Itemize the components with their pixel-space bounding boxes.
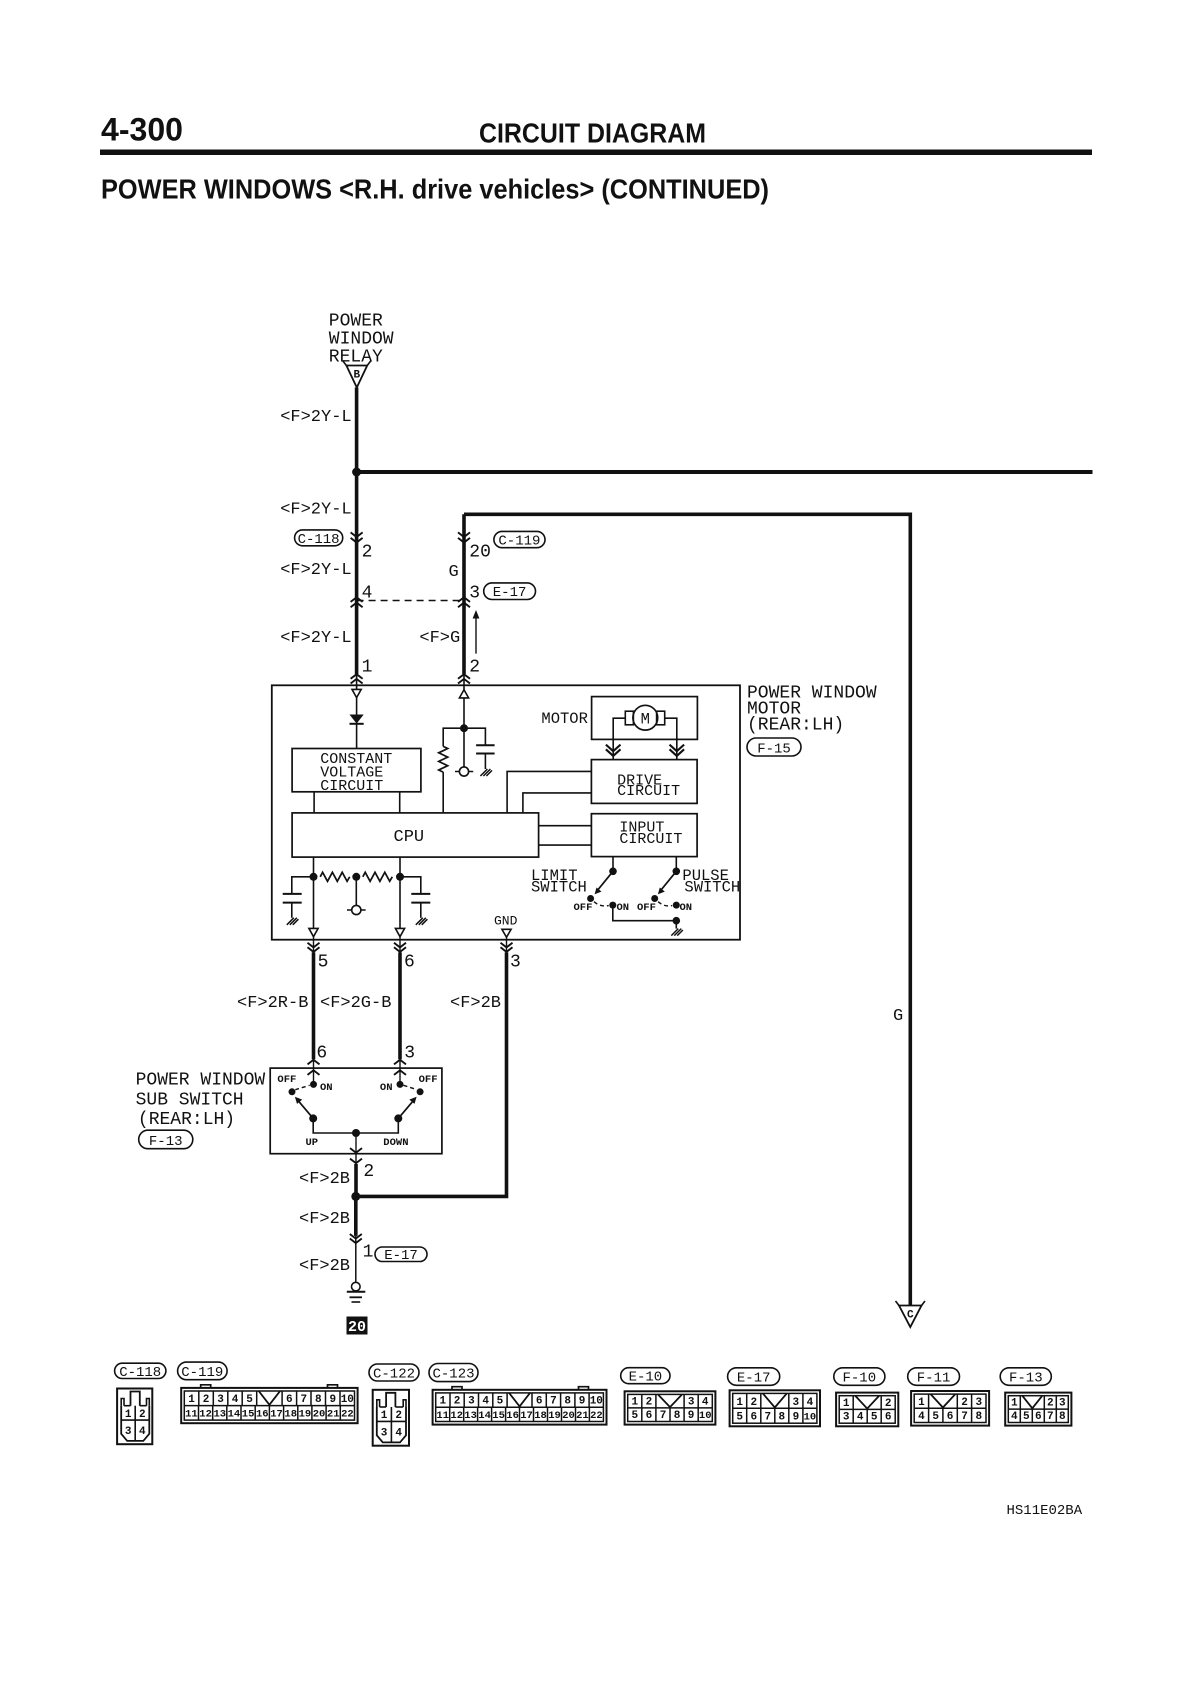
pin 3 exit chevrons xyxy=(501,943,513,952)
wire 2B from sub switch xyxy=(354,1164,358,1196)
svg-text:20: 20 xyxy=(469,543,491,563)
diode D1 xyxy=(350,715,364,724)
svg-text:GND: GND xyxy=(494,914,518,929)
svg-text:5: 5 xyxy=(246,1394,253,1406)
ground hatch C1 xyxy=(480,769,492,776)
pin 5 terminal triangle xyxy=(309,928,318,936)
pin 6 exit thin wire xyxy=(399,937,401,953)
svg-text:POWER: POWER xyxy=(329,311,383,331)
svg-text:18: 18 xyxy=(284,1409,297,1421)
svg-text:<F>2Y-L: <F>2Y-L xyxy=(280,408,351,427)
svg-text:2: 2 xyxy=(203,1394,210,1406)
wire CPU bottom left (pin5) xyxy=(313,857,315,928)
node junction right xyxy=(396,873,404,881)
svg-text:15: 15 xyxy=(492,1410,505,1422)
svg-text:CIRCUIT: CIRCUIT xyxy=(320,778,383,795)
connector C-123 lock tabs xyxy=(452,1387,589,1390)
svg-text:3: 3 xyxy=(510,953,521,973)
pin 5 exit thin wire xyxy=(313,937,315,953)
connector C-123 label box xyxy=(429,1364,478,1383)
wire 2R-B thick xyxy=(312,952,316,1059)
label PULSE SWITCH xyxy=(682,867,740,897)
wire CPU to INPUT upper xyxy=(539,825,592,827)
svg-text:F-15: F-15 xyxy=(757,741,791,757)
svg-text:C-122: C-122 xyxy=(373,1367,415,1383)
svg-text:C-118: C-118 xyxy=(298,532,340,548)
svg-text:2: 2 xyxy=(961,1397,968,1409)
svg-text:2: 2 xyxy=(362,543,373,563)
svg-text:9: 9 xyxy=(579,1396,586,1408)
node bottom junction xyxy=(351,1192,360,1201)
svg-text:CIRCUIT: CIRCUIT xyxy=(619,831,682,848)
svg-text:13: 13 xyxy=(464,1410,477,1422)
svg-text:<F>2B: <F>2B xyxy=(299,1210,350,1229)
svg-text:F-13: F-13 xyxy=(1009,1371,1043,1387)
svg-text:RELAY: RELAY xyxy=(329,347,383,367)
svg-text:18: 18 xyxy=(534,1410,547,1422)
svg-text:3: 3 xyxy=(1059,1398,1066,1410)
svg-text:8: 8 xyxy=(1059,1411,1066,1423)
wire middle down to tap circle xyxy=(355,877,357,906)
node B (power window relay terminal) xyxy=(343,361,371,388)
svg-text:7: 7 xyxy=(300,1394,307,1406)
ECU outer box (power window motor unit) xyxy=(272,685,740,939)
connector E-17 chevrons bottom xyxy=(350,1234,362,1243)
svg-text:7: 7 xyxy=(660,1410,667,1422)
wire B relay down (2Y-L) xyxy=(355,388,359,675)
wire C1 to ground xyxy=(484,754,486,770)
svg-text:WINDOW: WINDOW xyxy=(329,329,394,349)
svg-text:SWITCH: SWITCH xyxy=(531,879,587,897)
wire C3 to ground xyxy=(420,903,422,918)
svg-text:6: 6 xyxy=(750,1412,757,1424)
svg-text:<F>2R-B: <F>2R-B xyxy=(237,994,308,1013)
label LIMIT SWITCH xyxy=(531,867,587,897)
svg-text:2: 2 xyxy=(646,1396,653,1408)
svg-text:2: 2 xyxy=(395,1410,402,1422)
svg-text:3: 3 xyxy=(381,1427,388,1439)
svg-text:(REAR:LH): (REAR:LH) xyxy=(138,1110,235,1130)
wire CPU bottom right (pin6) xyxy=(399,857,401,928)
connector C-122 body xyxy=(373,1390,409,1446)
svg-text:POWER WINDOWS <R.H. drive vehi: POWER WINDOWS <R.H. drive vehicles> (CON… xyxy=(101,174,769,205)
node junction left xyxy=(310,873,318,881)
svg-text:11: 11 xyxy=(185,1409,198,1421)
block CPU xyxy=(292,813,538,857)
svg-text:1: 1 xyxy=(631,1396,638,1408)
svg-text:<F>2B: <F>2B xyxy=(299,1170,350,1189)
wire 2G-B thick xyxy=(398,952,402,1059)
sub switch right contact ON dot xyxy=(397,1081,404,1088)
svg-text:8: 8 xyxy=(975,1411,982,1423)
block CONSTANT VOLTAGE CIRCUIT xyxy=(292,749,421,795)
svg-text:5: 5 xyxy=(318,953,329,973)
svg-text:3: 3 xyxy=(468,1396,475,1408)
connector E-17 chevrons on wire 1 xyxy=(351,597,363,607)
wire limit ON down and right xyxy=(613,905,677,921)
connector F-13 label box xyxy=(1000,1368,1051,1387)
svg-text:13: 13 xyxy=(213,1409,226,1421)
svg-text:G: G xyxy=(449,563,459,582)
connector E-10 body xyxy=(625,1391,716,1424)
svg-text:E-17: E-17 xyxy=(493,585,527,601)
svg-text:ON: ON xyxy=(617,902,630,914)
svg-text:21: 21 xyxy=(576,1410,589,1422)
wire left stub to capacitor C2 xyxy=(292,877,314,894)
node 20 ground reference box xyxy=(347,1317,368,1336)
svg-text:CPU: CPU xyxy=(394,828,425,847)
node junction middle xyxy=(352,873,360,881)
svg-text:6: 6 xyxy=(286,1394,293,1406)
svg-text:F-13: F-13 xyxy=(149,1134,183,1150)
svg-text:19: 19 xyxy=(299,1409,312,1421)
svg-text:2: 2 xyxy=(139,1409,146,1421)
dashed arc right xyxy=(403,1085,416,1089)
wire R1 to CPU xyxy=(442,772,444,813)
capacitor C2 xyxy=(283,894,302,903)
ground G1 earth symbol xyxy=(347,1282,366,1302)
svg-text:6: 6 xyxy=(404,953,415,973)
svg-text:8: 8 xyxy=(315,1394,322,1406)
svg-text:1: 1 xyxy=(736,1397,743,1409)
svg-text:1: 1 xyxy=(188,1394,195,1406)
connector C-118 chevrons on wire 1 xyxy=(351,532,363,542)
svg-text:4: 4 xyxy=(702,1396,709,1408)
svg-text:1: 1 xyxy=(362,658,373,678)
sub switch box xyxy=(270,1068,442,1154)
wire 2B thick down to bottom junction xyxy=(356,952,507,1196)
wire output down inside box xyxy=(355,1133,357,1164)
wire pulse to ground xyxy=(675,921,677,929)
svg-text:<F>2Y-L: <F>2Y-L xyxy=(280,561,351,580)
svg-text:14: 14 xyxy=(228,1409,241,1421)
svg-text:7: 7 xyxy=(764,1412,771,1424)
svg-text:POWER WINDOW: POWER WINDOW xyxy=(136,1071,266,1091)
svg-text:2: 2 xyxy=(454,1396,461,1408)
tap circle node xyxy=(455,767,473,776)
svg-text:UP: UP xyxy=(306,1137,319,1149)
svg-text:4: 4 xyxy=(857,1412,864,1424)
svg-text:11: 11 xyxy=(436,1410,449,1422)
connector E-17 label box xyxy=(728,1368,780,1387)
direction arrow up beside wire 2 xyxy=(473,610,480,654)
node C (ground terminal triangle) xyxy=(896,1301,926,1327)
svg-text:7: 7 xyxy=(550,1396,557,1408)
svg-text:12: 12 xyxy=(450,1410,463,1422)
svg-text:E-17: E-17 xyxy=(384,1248,418,1264)
connector C-119 chevrons on wire 2 xyxy=(458,532,470,542)
connector F-10 body xyxy=(836,1393,898,1427)
svg-text:3: 3 xyxy=(975,1397,982,1409)
svg-text:B: B xyxy=(353,370,360,382)
wire CPU to INPUT lower xyxy=(539,844,592,846)
svg-text:10: 10 xyxy=(699,1410,712,1422)
svg-text:1: 1 xyxy=(1011,1398,1018,1410)
connector C-119 lock tabs xyxy=(201,1385,338,1388)
svg-text:<F>2G-B: <F>2G-B xyxy=(320,994,391,1013)
connector E-10 label box xyxy=(621,1368,670,1386)
svg-text:6: 6 xyxy=(536,1396,543,1408)
svg-text:10: 10 xyxy=(341,1394,354,1406)
wire CPU to DRIVE lower xyxy=(523,793,592,813)
svg-text:ON: ON xyxy=(380,1082,393,1094)
svg-text:9: 9 xyxy=(688,1410,695,1422)
connector F-11 label box xyxy=(908,1368,960,1387)
svg-text:5: 5 xyxy=(932,1411,939,1423)
svg-text:6: 6 xyxy=(1035,1411,1042,1423)
sub switch left lever xyxy=(295,1097,317,1123)
wire junction down to tap circle xyxy=(463,728,465,767)
svg-text:DOWN: DOWN xyxy=(383,1137,408,1149)
svg-text:F-11: F-11 xyxy=(917,1371,951,1387)
svg-text:1: 1 xyxy=(439,1396,446,1408)
svg-text:5: 5 xyxy=(497,1396,504,1408)
connector F-13 label box left xyxy=(139,1130,193,1150)
capacitor C3 xyxy=(411,894,430,903)
svg-text:5: 5 xyxy=(871,1412,878,1424)
svg-text:20: 20 xyxy=(562,1410,575,1422)
svg-text:7: 7 xyxy=(961,1411,968,1423)
sub switch right lever xyxy=(394,1097,416,1123)
svg-text:22: 22 xyxy=(341,1409,354,1421)
svg-text:3: 3 xyxy=(688,1396,695,1408)
wire junction to resistor R1 xyxy=(443,728,464,746)
svg-text:M: M xyxy=(641,711,650,729)
connector F-11 body xyxy=(911,1391,989,1426)
svg-text:8: 8 xyxy=(778,1412,785,1424)
svg-text:OFF: OFF xyxy=(419,1074,438,1086)
sub switch left contact ON dot xyxy=(310,1081,317,1088)
svg-text:2: 2 xyxy=(885,1398,892,1410)
wire motor left lead xyxy=(613,718,625,759)
ground hatch switches xyxy=(671,929,683,936)
wire G bus with right drop xyxy=(464,514,910,1305)
wire motor right lead xyxy=(665,718,677,759)
svg-text:1: 1 xyxy=(363,1243,374,1263)
svg-text:E-10: E-10 xyxy=(629,1370,663,1386)
svg-text:6: 6 xyxy=(316,1044,327,1064)
svg-text:CIRCUIT DIAGRAM: CIRCUIT DIAGRAM xyxy=(479,118,706,149)
svg-text:2: 2 xyxy=(750,1397,757,1409)
svg-text:3: 3 xyxy=(469,584,480,604)
connector C-119 label box xyxy=(494,531,545,549)
wire 2B to E-17 xyxy=(354,1196,358,1236)
svg-text:8: 8 xyxy=(564,1396,571,1408)
svg-text:(REAR:LH): (REAR:LH) xyxy=(747,715,844,735)
svg-text:20: 20 xyxy=(313,1409,326,1421)
svg-text:4: 4 xyxy=(807,1397,814,1409)
arrowheads motor right lead xyxy=(670,745,685,756)
sub switch left OFF dot xyxy=(289,1088,296,1095)
wire CPU to DRIVE upper xyxy=(507,771,591,813)
svg-text:4: 4 xyxy=(918,1411,925,1423)
tap circle node below CPU xyxy=(347,905,366,914)
svg-text:E-17: E-17 xyxy=(737,1371,771,1387)
svg-text:16: 16 xyxy=(256,1409,269,1421)
wire diode to constant voltage circuit xyxy=(356,724,358,749)
resistor R2 horizontal xyxy=(320,872,350,881)
pin 2 terminal triangle xyxy=(459,674,468,698)
svg-text:OFF: OFF xyxy=(574,902,593,914)
svg-text:9: 9 xyxy=(329,1394,336,1406)
svg-text:14: 14 xyxy=(478,1410,491,1422)
svg-text:20: 20 xyxy=(348,1319,366,1336)
svg-text:SUB SWITCH: SUB SWITCH xyxy=(136,1091,244,1111)
wire main bus to right xyxy=(355,470,1093,474)
wire pin2 down to junction xyxy=(463,698,465,728)
svg-text:3: 3 xyxy=(125,1426,132,1438)
node sub switch output junction xyxy=(352,1129,360,1137)
resistor R3 horizontal xyxy=(363,872,393,881)
svg-text:G: G xyxy=(893,1007,903,1026)
sub switch right OFF dot xyxy=(417,1088,424,1095)
svg-text:19: 19 xyxy=(548,1410,561,1422)
connector C-118 label box xyxy=(295,530,343,548)
wire 2B to ground xyxy=(355,1236,357,1282)
svg-text:7: 7 xyxy=(1047,1411,1054,1423)
connector E-17 label box xyxy=(484,583,536,601)
svg-text:5: 5 xyxy=(631,1410,638,1422)
wire pin1 to diode xyxy=(356,698,358,715)
connector C-118 body xyxy=(117,1389,152,1445)
sub switch entry thin wire left xyxy=(313,1059,315,1084)
connector C-119 body xyxy=(181,1388,357,1423)
svg-text:SWITCH: SWITCH xyxy=(684,879,740,897)
pin 5 exit chevrons xyxy=(308,943,320,952)
label POWER WINDOW RELAY xyxy=(329,311,394,367)
svg-text:9: 9 xyxy=(793,1412,800,1424)
svg-text:1: 1 xyxy=(125,1409,132,1421)
ground hatch C3 xyxy=(416,918,428,925)
svg-text:1: 1 xyxy=(918,1397,925,1409)
wire C2 to ground xyxy=(291,903,293,918)
connector C-119 label box xyxy=(178,1362,228,1381)
wire right stub to capacitor C3 xyxy=(400,877,421,894)
connector E-17 chevrons on wire 2 xyxy=(458,597,470,607)
svg-text:C-118: C-118 xyxy=(119,1365,161,1381)
sub switch exit chevrons xyxy=(350,1148,362,1163)
header rule xyxy=(100,150,1092,156)
connector C-123 body xyxy=(433,1390,607,1425)
svg-text:C: C xyxy=(907,1310,914,1322)
pin 6 terminal triangle xyxy=(395,928,404,936)
svg-text:OFF: OFF xyxy=(637,902,656,914)
svg-text:C-119: C-119 xyxy=(498,533,540,549)
wire CVC to CPU left xyxy=(313,792,315,813)
resistor R1 vertical xyxy=(439,746,448,772)
svg-text:ON: ON xyxy=(680,902,693,914)
svg-text:<F>2B: <F>2B xyxy=(299,1257,350,1276)
ECU pin 2 entry chevrons xyxy=(458,674,470,683)
connector E-17 label box bottom xyxy=(375,1247,427,1264)
svg-text:<F>G: <F>G xyxy=(419,629,460,648)
svg-text:5: 5 xyxy=(736,1412,743,1424)
sub switch entry chevrons left xyxy=(308,1060,320,1075)
svg-text:CIRCUIT: CIRCUIT xyxy=(617,783,680,800)
capacitor C1 xyxy=(476,745,495,753)
dashed arc left xyxy=(295,1085,309,1089)
svg-text:21: 21 xyxy=(327,1409,340,1421)
svg-text:4-300: 4-300 xyxy=(101,112,183,148)
svg-text:2: 2 xyxy=(469,658,480,678)
svg-text:4: 4 xyxy=(482,1396,489,1408)
label POWER WINDOW MOTOR (REAR:LH) xyxy=(747,683,877,735)
wire CVC to CPU right xyxy=(399,792,401,813)
svg-text:6: 6 xyxy=(646,1410,653,1422)
connector F-13 body xyxy=(1005,1393,1071,1426)
svg-text:1: 1 xyxy=(843,1398,850,1410)
svg-text:17: 17 xyxy=(270,1409,283,1421)
svg-text:10: 10 xyxy=(804,1412,817,1424)
svg-text:<F>2B: <F>2B xyxy=(450,994,501,1013)
svg-text:C-123: C-123 xyxy=(432,1367,474,1383)
block DRIVE CIRCUIT xyxy=(591,760,697,804)
node junction pin2 xyxy=(460,724,468,732)
wire E-17 dashed link xyxy=(357,600,464,602)
svg-text:<F>2Y-L: <F>2Y-L xyxy=(280,629,351,648)
sub switch entry thin wire right xyxy=(399,1059,401,1084)
svg-text:4: 4 xyxy=(395,1427,402,1439)
pin 1 terminal triangle xyxy=(352,674,361,698)
svg-text:6: 6 xyxy=(885,1412,892,1424)
arrowheads motor left lead xyxy=(606,745,621,756)
svg-text:15: 15 xyxy=(242,1409,255,1421)
svg-text:4: 4 xyxy=(232,1394,239,1406)
pin 3 GND terminal triangle xyxy=(502,929,511,937)
svg-text:10: 10 xyxy=(590,1396,603,1408)
ground hatch C2 xyxy=(287,918,299,925)
svg-text:<F>2Y-L: <F>2Y-L xyxy=(280,501,351,520)
motor M1 assembly xyxy=(592,697,698,740)
wire junction to capacitor C1 xyxy=(464,728,485,745)
limit switch SW1 xyxy=(587,857,617,909)
svg-text:C-119: C-119 xyxy=(181,1365,223,1381)
wire 2 vertical (G) xyxy=(462,514,466,674)
svg-text:4: 4 xyxy=(1011,1411,1018,1423)
svg-text:ON: ON xyxy=(320,1082,333,1094)
svg-text:5: 5 xyxy=(1023,1411,1030,1423)
svg-text:6: 6 xyxy=(947,1411,954,1423)
connector F-10 label box xyxy=(834,1368,885,1387)
svg-text:3: 3 xyxy=(217,1394,224,1406)
pin 3 exit thin wire xyxy=(506,937,508,952)
svg-text:3: 3 xyxy=(843,1412,850,1424)
svg-text:17: 17 xyxy=(520,1410,533,1422)
connector E-17 body xyxy=(730,1390,820,1426)
svg-text:OFF: OFF xyxy=(277,1074,296,1086)
svg-text:1: 1 xyxy=(381,1410,388,1422)
wire sub switch commons xyxy=(313,1118,398,1133)
svg-text:3: 3 xyxy=(404,1044,415,1064)
label POWER WINDOW SUB SWITCH (REAR:LH) xyxy=(136,1071,266,1131)
pulse switch SW2 xyxy=(651,857,680,909)
block INPUT CIRCUIT xyxy=(591,814,697,857)
svg-text:12: 12 xyxy=(199,1409,212,1421)
svg-text:3: 3 xyxy=(792,1397,799,1409)
svg-text:8: 8 xyxy=(674,1410,681,1422)
svg-text:HS11E02BA: HS11E02BA xyxy=(1007,1503,1083,1519)
svg-text:2: 2 xyxy=(1047,1398,1054,1410)
pin 6 exit chevrons xyxy=(394,943,406,952)
node junction pulse ground xyxy=(673,917,681,925)
svg-text:2: 2 xyxy=(363,1162,374,1182)
connector C-122 label box xyxy=(369,1364,419,1383)
svg-text:22: 22 xyxy=(590,1410,603,1422)
connector F-15 label box xyxy=(747,738,801,757)
svg-text:4: 4 xyxy=(139,1426,146,1438)
node junction at bus xyxy=(352,468,361,477)
connector C-118 label box xyxy=(115,1363,166,1381)
